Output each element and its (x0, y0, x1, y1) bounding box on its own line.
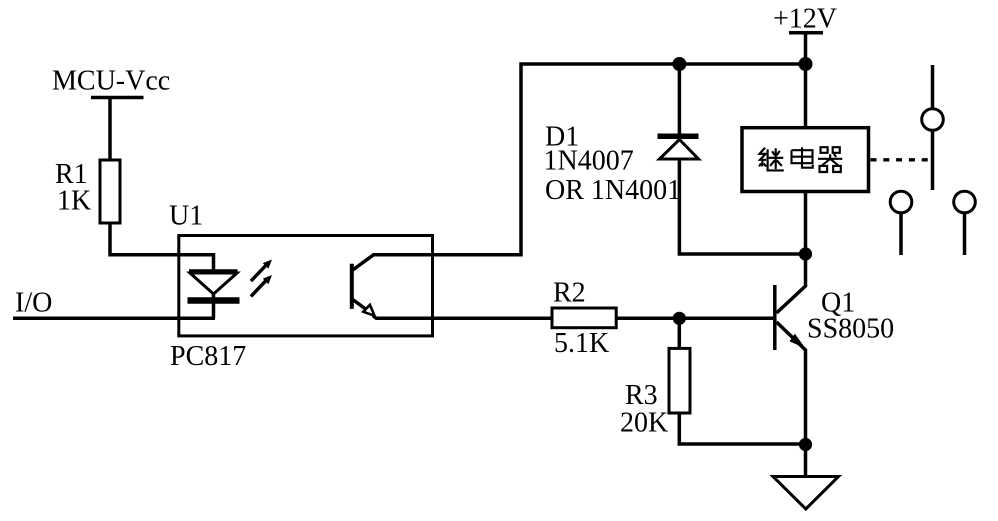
svg-text:+12V: +12V (773, 4, 837, 35)
svg-text:U1: U1 (169, 201, 203, 232)
svg-text:1N4007: 1N4007 (544, 146, 634, 177)
svg-text:I/O: I/O (15, 288, 52, 319)
svg-text:1K: 1K (57, 186, 91, 217)
svg-text:R3: R3 (625, 380, 658, 411)
svg-text:SS8050: SS8050 (807, 314, 894, 345)
svg-text:5.1K: 5.1K (554, 328, 609, 359)
svg-text:R2: R2 (553, 278, 586, 309)
svg-text:OR 1N4001: OR 1N4001 (545, 175, 681, 206)
svg-text:MCU-Vcc: MCU-Vcc (52, 66, 170, 97)
svg-text:20K: 20K (620, 408, 668, 439)
svg-text:PC817: PC817 (170, 341, 246, 372)
